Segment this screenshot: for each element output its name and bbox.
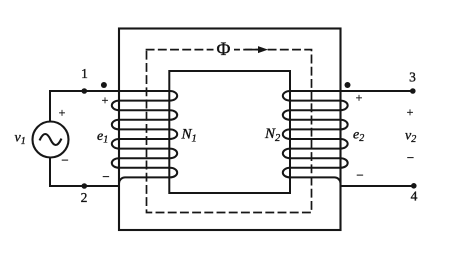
- svg-text:−: −: [102, 169, 109, 184]
- node terminal 4 end: [411, 183, 417, 189]
- svg-text:3: 3: [409, 70, 416, 85]
- flux label mask: [214, 41, 235, 58]
- svg-text:+: +: [407, 105, 414, 119]
- winding N1 (primary coil): [112, 91, 177, 186]
- svg-text:1: 1: [81, 66, 88, 81]
- svg-text:4: 4: [411, 189, 418, 204]
- svg-text:−: −: [356, 168, 363, 183]
- polarity dot secondary: [345, 82, 351, 88]
- wire: bottom right (terminal 4 lead): [341, 185, 414, 187]
- svg-text:2: 2: [81, 190, 88, 205]
- polarity dot primary: [101, 82, 107, 88]
- svg-text:+: +: [59, 106, 66, 120]
- node terminal 2 junction: [82, 183, 88, 189]
- winding N2 (secondary coil): [283, 91, 413, 186]
- wire: bottom left (terminal 2 lead): [50, 185, 119, 187]
- wire: top left (terminal 1 lead): [50, 90, 119, 92]
- svg-text:+: +: [356, 91, 363, 105]
- svg-text:−: −: [61, 153, 68, 168]
- voltage source v1: [33, 122, 69, 158]
- node terminal 3 end: [410, 88, 416, 94]
- core inner edge (window): [169, 71, 290, 193]
- flux arrow: [246, 46, 268, 53]
- node terminal 1 junction: [82, 88, 88, 94]
- svg-text:+: +: [102, 93, 109, 107]
- svg-text:−: −: [407, 150, 414, 165]
- flux path (dashed): [147, 50, 312, 213]
- wire: source vertical top: [49, 91, 51, 122]
- core outer edge: [119, 29, 341, 231]
- svg-text:Φ: Φ: [217, 39, 231, 60]
- wire: source vertical bottom: [49, 158, 51, 187]
